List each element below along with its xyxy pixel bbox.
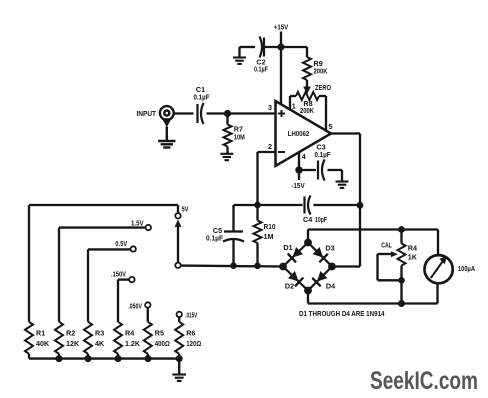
svg-text:0.1µF: 0.1µF [194, 93, 211, 102]
svg-text:10M: 10M [234, 133, 245, 142]
svg-text:2: 2 [268, 142, 272, 151]
svg-text:R1: R1 [36, 328, 45, 337]
svg-text:R4: R4 [408, 244, 417, 253]
svg-text:5V: 5V [182, 205, 189, 214]
svg-text:D4: D4 [326, 282, 335, 291]
svg-text:CAL: CAL [381, 241, 392, 250]
svg-text:0.1µF: 0.1µF [254, 64, 268, 73]
svg-text:5: 5 [329, 122, 333, 131]
svg-text:3: 3 [268, 103, 272, 112]
svg-text:R5: R5 [155, 328, 164, 337]
svg-text:100µA: 100µA [458, 264, 475, 273]
svg-text:D2: D2 [285, 282, 294, 291]
svg-text:R10: R10 [264, 222, 276, 231]
svg-text:LH0062: LH0062 [288, 129, 310, 138]
svg-text:R6: R6 [186, 328, 195, 337]
svg-text:1K: 1K [408, 253, 418, 262]
svg-text:120Ω: 120Ω [186, 339, 201, 348]
svg-text:.150V: .150V [111, 269, 126, 278]
svg-text:C4: C4 [303, 215, 312, 224]
svg-text:D1: D1 [283, 243, 292, 252]
svg-text:1: 1 [292, 102, 296, 111]
svg-text:.015V: .015V [185, 310, 197, 319]
svg-text:+15V: +15V [274, 23, 289, 32]
svg-text:ZERO: ZERO [315, 83, 331, 92]
svg-text:R2: R2 [66, 328, 75, 337]
svg-text:0.1µF: 0.1µF [315, 150, 332, 159]
svg-text:10pF: 10pF [315, 215, 327, 224]
svg-text:R4: R4 [125, 328, 134, 337]
svg-text:40K: 40K [36, 339, 50, 348]
svg-text:SeekIC.com: SeekIC.com [370, 367, 478, 395]
svg-text:4K: 4K [95, 339, 105, 348]
svg-text:400Ω: 400Ω [155, 339, 170, 348]
svg-text:0.5V: 0.5V [115, 239, 127, 248]
svg-text:200K: 200K [300, 106, 315, 115]
svg-text:INPUT: INPUT [137, 109, 157, 118]
svg-text:1.5V: 1.5V [131, 219, 144, 228]
svg-text:R3: R3 [95, 328, 104, 337]
svg-text:1.2K: 1.2K [125, 339, 141, 348]
svg-text:4: 4 [302, 152, 306, 161]
svg-text:0.1µF: 0.1µF [206, 234, 224, 243]
svg-text:200K: 200K [314, 67, 329, 76]
svg-text:-15V: -15V [291, 181, 305, 190]
svg-text:12K: 12K [66, 339, 80, 348]
svg-text:.050V: .050V [128, 301, 142, 310]
svg-text:D3: D3 [325, 244, 334, 253]
svg-text:D1 THROUGH D4 ARE 1N914: D1 THROUGH D4 ARE 1N914 [299, 309, 385, 318]
svg-text:1M: 1M [264, 232, 274, 241]
